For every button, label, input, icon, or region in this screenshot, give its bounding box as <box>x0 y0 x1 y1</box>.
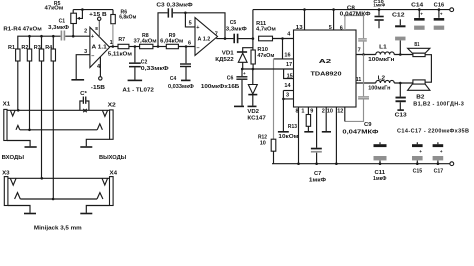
contact V X2 tip <box>102 110 107 116</box>
svg-text:0,047МКФ: 0,047МКФ <box>342 130 378 136</box>
svg-text:X2: X2 <box>108 102 116 108</box>
capacitor C6 <box>201 69 248 106</box>
svg-text:R13: R13 <box>288 124 297 130</box>
svg-text:1мкФ: 1мкФ <box>373 3 385 8</box>
capacitor C13 <box>395 83 407 119</box>
resistor R1 <box>8 45 20 61</box>
wire pin 11 output <box>356 77 376 83</box>
capacitor C9 <box>342 55 378 136</box>
wire pin 13 stub <box>296 8 306 31</box>
label minijack <box>34 226 82 232</box>
wire pin16 to R12 <box>273 59 275 139</box>
svg-text:R4: R4 <box>45 45 53 51</box>
terminal -15V A1.1 <box>91 77 105 91</box>
svg-text:C14: C14 <box>411 2 424 8</box>
svg-text:X4: X4 <box>110 171 119 177</box>
connector X2 <box>108 102 116 139</box>
op-amp A1.2 <box>195 18 218 56</box>
label pin 4 <box>287 32 291 38</box>
wire pin 6 stub <box>340 16 364 39</box>
svg-text:100мкФх16Б: 100мкФх16Б <box>201 84 239 90</box>
svg-text:37,4кОм: 37,4кОм <box>134 39 157 45</box>
svg-text:17: 17 <box>286 62 292 68</box>
ground bar X1 <box>25 146 37 148</box>
svg-text:3,3мкФ: 3,3мкФ <box>226 27 247 33</box>
capacitor C16 <box>434 2 445 29</box>
svg-text:10: 10 <box>260 141 266 147</box>
wire R1 bottom to X1 tip <box>17 61 19 110</box>
wire pin 12 to C9 <box>337 107 345 121</box>
svg-text:1мкФ: 1мкФ <box>373 176 387 182</box>
svg-text:C13: C13 <box>395 113 407 119</box>
pin 4 supply stub A1.1 <box>97 57 101 77</box>
label R1-R4 group value <box>3 27 41 33</box>
svg-text:2: 2 <box>322 109 325 115</box>
resistor R12 <box>258 135 276 164</box>
resistor R7 <box>108 37 132 58</box>
svg-text:C15: C15 <box>413 169 423 175</box>
wire pin 14 stub <box>283 83 293 90</box>
wire pin 15 tie <box>284 69 294 79</box>
svg-text:R3: R3 <box>34 45 41 51</box>
connector X3 <box>2 171 10 206</box>
svg-text:16: 16 <box>284 52 290 58</box>
resistor R10 <box>251 47 274 69</box>
label A1 type <box>122 87 153 93</box>
svg-text:10кОм: 10кОм <box>278 134 298 140</box>
svg-text:14: 14 <box>284 83 291 89</box>
svg-text:C7: C7 <box>314 171 321 177</box>
svg-text:15: 15 <box>287 73 293 79</box>
svg-text:A1 - TL072: A1 - TL072 <box>122 87 153 93</box>
svg-text:7: 7 <box>215 32 218 38</box>
node R2 top <box>28 35 31 38</box>
resistor R4 <box>45 36 55 61</box>
inductor L1 <box>368 45 394 63</box>
svg-text:5: 5 <box>329 25 332 31</box>
svg-text:C1: C1 <box>59 19 66 25</box>
capacitor C15 <box>412 142 423 174</box>
svg-text:C8: C8 <box>347 5 355 11</box>
capacitor C2 <box>129 47 169 80</box>
node feedback to pin5 <box>184 12 187 15</box>
svg-text:B1,B2 - 100ГДН-3: B1,B2 - 100ГДН-3 <box>413 101 464 107</box>
svg-text:0,047МКФ: 0,047МКФ <box>340 12 371 18</box>
wire L1 to B1 <box>394 53 413 56</box>
svg-text:13: 13 <box>296 25 303 31</box>
wire R4 bottom to X3 ring <box>52 61 54 199</box>
svg-text:0,33мкФ: 0,33мкФ <box>141 66 169 72</box>
wire bottom bus <box>272 163 450 165</box>
svg-text:100мкГн: 100мкГн <box>368 57 394 63</box>
potentiometer R5 <box>45 1 83 36</box>
ground bar C4 <box>181 79 191 81</box>
svg-text:1: 1 <box>110 40 113 46</box>
wire X2 sleeve to ground <box>86 139 109 146</box>
contact A X3 ring <box>15 193 21 199</box>
svg-text:A 1.2: A 1.2 <box>198 37 211 43</box>
IC A2 TDA8920 <box>294 30 357 107</box>
wire X3-X4 tip line <box>8 177 110 180</box>
svg-text:9: 9 <box>310 109 313 115</box>
capacitor C12 <box>392 12 406 54</box>
svg-text:5: 5 <box>189 21 192 27</box>
svg-text:L2: L2 <box>378 75 386 81</box>
svg-text:+15 В: +15 В <box>89 12 107 18</box>
capacitor C7 <box>309 107 326 183</box>
svg-text:+: + <box>440 12 443 17</box>
svg-text:A 1.1: A 1.1 <box>92 44 107 50</box>
svg-text:R1: R1 <box>8 45 15 51</box>
svg-text:6: 6 <box>188 41 191 47</box>
svg-text:X1: X1 <box>3 102 11 108</box>
svg-text:X3: X3 <box>2 171 10 177</box>
svg-text:R7: R7 <box>118 37 125 43</box>
wire R3 bottom to X3 tip <box>41 61 43 178</box>
svg-text:-15В: -15В <box>91 85 105 91</box>
wire pin 5 stub <box>329 8 335 31</box>
svg-text:A2: A2 <box>319 59 331 65</box>
ground bar VD2 <box>248 105 257 107</box>
wire pin 7 output <box>356 48 376 55</box>
wire A1.1 inverting input to ground <box>76 55 90 79</box>
wire C5 to supply node <box>238 37 254 40</box>
wire X3-X4 ring line <box>20 198 97 201</box>
diode VD1 <box>215 50 247 69</box>
wire pin 16 <box>274 52 294 59</box>
wire pin4 to pin16 tie <box>282 39 284 59</box>
wire pin 10 to bus <box>327 107 338 165</box>
svg-text:R2: R2 <box>21 45 28 51</box>
svg-text:TDA8920: TDA8920 <box>311 72 342 78</box>
speaker B1 <box>408 42 430 57</box>
capacitor C5 <box>226 20 247 43</box>
svg-text:C9: C9 <box>364 122 372 128</box>
capacitor C17 <box>433 142 444 174</box>
resistor R11 <box>256 21 294 41</box>
wire pin 8 to bus <box>296 107 300 165</box>
resistor R2 <box>21 36 31 61</box>
svg-text:C17: C17 <box>434 169 444 175</box>
zener diode VD2 <box>247 69 265 122</box>
op-amp A1.1 <box>84 27 110 67</box>
wire top rail riser <box>252 10 254 50</box>
ground bar X4 <box>80 213 92 215</box>
wire R9 to A1.2 inverting input <box>178 41 195 48</box>
svg-text:3,3мкФ: 3,3мкФ <box>48 25 69 31</box>
ground bar C2 <box>128 79 143 81</box>
svg-text:C3 0,33мкФ: C3 0,33мкФ <box>156 2 193 8</box>
svg-text:12: 12 <box>337 109 343 115</box>
svg-text:47кОм: 47кОм <box>257 53 274 59</box>
svg-text:–: – <box>197 45 200 51</box>
ground bar pin2 <box>322 131 331 133</box>
terminal bottom bus <box>450 162 454 166</box>
wire C8 to pin7 line <box>362 42 365 56</box>
wire feedback tap to A1.2 non-inverting input <box>185 13 195 27</box>
capacitor C3 <box>156 2 193 17</box>
label C14-C17 value <box>397 129 469 135</box>
resistor R13 <box>301 107 310 131</box>
contact V X4 tip <box>102 178 108 185</box>
capacitor C11 <box>373 142 387 182</box>
svg-text:L1: L1 <box>379 45 387 51</box>
resistor R6 <box>111 9 137 46</box>
svg-text:0,033мкФ: 0,033мкФ <box>168 84 194 90</box>
capacitor C1 <box>48 19 69 41</box>
svg-text:C5: C5 <box>230 20 237 26</box>
svg-text:+: + <box>91 34 94 40</box>
svg-text:VD2: VD2 <box>247 109 259 115</box>
node C1-R5 junction <box>72 35 75 38</box>
svg-text:C14-C17 - 2200мкФх35В: C14-C17 - 2200мкФх35В <box>397 129 469 135</box>
contact A X1 ring <box>16 125 20 129</box>
svg-text:+: + <box>243 71 246 76</box>
svg-text:1мкФ: 1мкФ <box>309 177 326 183</box>
svg-text:B1: B1 <box>414 42 419 48</box>
svg-text:+: + <box>419 149 422 154</box>
ground bar X3 <box>24 213 36 215</box>
wire R8 to R9 <box>153 45 166 48</box>
resistor R9 <box>160 33 183 49</box>
svg-text:4,7кОм: 4,7кОм <box>256 27 276 33</box>
wire X1-X2 ring line <box>20 129 97 132</box>
svg-text:B2: B2 <box>416 94 424 100</box>
svg-text:VD1: VD1 <box>222 50 234 56</box>
wire pin 17 node line <box>241 62 294 70</box>
capacitor C8 <box>340 5 371 41</box>
svg-text:8: 8 <box>95 26 98 31</box>
label inputs <box>2 155 25 161</box>
wire A1.2 output <box>215 32 234 40</box>
svg-text:C16: C16 <box>434 2 445 8</box>
contact A X4 ring <box>97 193 103 199</box>
pin 8 supply stub A1.1 <box>95 21 99 38</box>
svg-text:КС147: КС147 <box>247 116 265 122</box>
wire X1-X2 tip line <box>7 109 110 112</box>
svg-text:6: 6 <box>340 26 343 32</box>
wire B1 to B2 series link <box>425 55 431 82</box>
capacitor C10 <box>373 0 385 28</box>
contact A X2 ring <box>97 124 102 130</box>
label outputs <box>99 155 127 161</box>
svg-text:C12: C12 <box>392 12 405 18</box>
wire X4 sleeve to ground <box>86 206 109 213</box>
wire pin 2 to ground <box>322 107 326 131</box>
connector X4 <box>110 171 119 206</box>
svg-text:C*: C* <box>80 91 88 97</box>
label R13 value <box>278 124 298 140</box>
node R4 top <box>52 35 55 38</box>
wire R2 bottom to X1 ring <box>29 61 31 130</box>
svg-text:C2: C2 <box>141 59 148 65</box>
ground bar C6 <box>234 105 244 107</box>
ground bar pin3 A2 <box>278 131 289 133</box>
wire X3 sleeve to ground <box>8 206 30 213</box>
ground bar A1.1 pin3 <box>71 79 84 81</box>
contact V X3 tip <box>10 178 16 185</box>
svg-text:C6: C6 <box>227 75 234 81</box>
svg-text:5,11кОм: 5,11кОм <box>108 52 132 58</box>
speaker B2 <box>408 80 430 100</box>
wire A1.1 output line <box>110 40 118 48</box>
capacitor C14 <box>411 2 425 29</box>
resistor R8 <box>134 33 157 49</box>
svg-text:+: + <box>440 149 443 154</box>
svg-text:7: 7 <box>358 48 361 54</box>
svg-text:6,8кОм: 6,8кОм <box>119 15 136 21</box>
svg-text:Minijack 3,5 mm: Minijack 3,5 mm <box>34 226 82 232</box>
inductor L2 <box>368 75 394 91</box>
svg-text:–: – <box>91 54 94 60</box>
svg-text:1: 1 <box>301 109 304 115</box>
svg-text:+: + <box>420 12 423 17</box>
svg-text:КД522: КД522 <box>215 57 233 63</box>
wire A1.2 feedback loop <box>158 13 225 47</box>
svg-text:C4: C4 <box>170 76 177 82</box>
svg-text:11: 11 <box>356 77 362 83</box>
svg-text:2: 2 <box>84 29 87 35</box>
terminal top rail <box>450 8 454 12</box>
capacitor C* <box>80 91 89 110</box>
label B1 B2 type <box>413 101 464 107</box>
connector X1 <box>3 102 11 141</box>
svg-text:ВЫХОДЫ: ВЫХОДЫ <box>99 155 127 161</box>
resistor R3 <box>34 36 44 61</box>
svg-text:6,04кОм: 6,04кОм <box>160 39 183 45</box>
svg-text:ВХОДЫ: ВХОДЫ <box>2 155 25 161</box>
crossed-out junction mark <box>83 109 87 112</box>
wire VD1 cathode link <box>243 48 253 52</box>
wire X1 sleeve to ground <box>7 141 30 147</box>
svg-text:100мкГн: 100мкГн <box>368 86 390 92</box>
capacitor C4 <box>168 47 194 90</box>
terminal +15V <box>89 12 107 20</box>
contact V X1 tip <box>10 110 15 116</box>
svg-text:10: 10 <box>327 109 333 115</box>
svg-text:8: 8 <box>296 109 299 115</box>
wire input summing bus <box>18 36 90 49</box>
node R3 top <box>40 35 43 38</box>
svg-text:+: + <box>196 25 199 31</box>
wire top supply rail <box>253 9 450 11</box>
wire R7 to R8 <box>129 45 140 48</box>
svg-text:47кОм: 47кОм <box>45 6 64 12</box>
wire R5/R6 top rail <box>73 8 113 11</box>
svg-text:R1-R4 47кОм: R1-R4 47кОм <box>3 27 41 33</box>
wire pin 3 to ground <box>282 91 293 132</box>
svg-text:3: 3 <box>286 93 289 99</box>
ground bar R13 <box>304 131 313 133</box>
wire L2 to B2 <box>394 82 413 85</box>
ground bar X2 <box>80 146 92 148</box>
